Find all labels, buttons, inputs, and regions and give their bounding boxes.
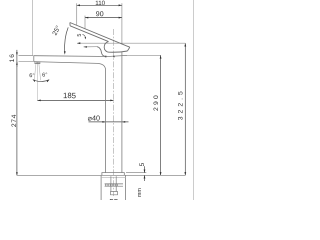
spout tip edge xyxy=(33,56,35,62)
dim 90 arrows xyxy=(85,17,122,19)
deck line xyxy=(17,174,185,176)
dim 185 arrows xyxy=(37,100,113,102)
base flange xyxy=(102,173,124,176)
dim 185 line xyxy=(37,99,113,101)
main centerline xyxy=(113,29,115,196)
svg-text:5: 5 xyxy=(77,34,83,37)
svg-text:⌀55: ⌀55 xyxy=(104,198,118,200)
svg-text:16: 16 xyxy=(9,53,16,62)
svg-text:5: 5 xyxy=(139,162,146,166)
svg-text:185: 185 xyxy=(63,91,77,100)
svg-text:mm: mm xyxy=(137,188,143,197)
lever tip cap xyxy=(69,23,71,26)
aerator xyxy=(35,62,40,64)
rod end cap xyxy=(111,192,118,195)
cropped extension line left xyxy=(32,0,34,56)
dim 16 arrows outside xyxy=(16,52,18,64)
dim 5 base arrows outside xyxy=(144,170,146,179)
dim 274 bottom arrow xyxy=(16,172,18,175)
svg-text:90: 90 xyxy=(96,11,104,18)
dim dia40 line xyxy=(89,121,129,123)
dim 110/90 extension right xyxy=(121,3,123,44)
angle 25 deg arc xyxy=(65,27,69,52)
column right edge xyxy=(121,52,123,173)
dim 110 line xyxy=(77,4,122,6)
dim 90 extension left xyxy=(84,16,86,29)
svg-text:322.5: 322.5 xyxy=(178,88,185,120)
beak tip edge xyxy=(127,47,129,51)
lever top and beak top edge xyxy=(70,23,130,48)
lever bottom edge xyxy=(70,26,108,42)
svg-text:6°: 6° xyxy=(29,73,34,79)
under-deck housing right wall xyxy=(124,175,126,200)
dim 110 arrows xyxy=(77,4,122,6)
cartridge housing profile xyxy=(104,42,109,53)
svg-text:110: 110 xyxy=(95,0,105,7)
dim 5 base extension tick xyxy=(126,172,146,174)
dim 110 extension left xyxy=(76,3,78,25)
dim 322.5 line xyxy=(184,43,186,175)
dim 5 lever leader xyxy=(82,34,85,38)
head underside xyxy=(109,51,127,52)
head left profile hook xyxy=(97,47,105,57)
svg-text:290: 290 xyxy=(153,93,160,111)
threaded rod xyxy=(111,176,116,191)
dim 16 line xyxy=(16,50,18,67)
deck bottom line xyxy=(101,176,125,178)
dim 322.5 top extension with arrow xyxy=(77,42,185,44)
junction dot left xyxy=(105,56,107,58)
dim 322.5 arrows xyxy=(184,43,186,175)
head top short line with arrow xyxy=(84,46,97,48)
spray angle arc xyxy=(33,80,49,82)
dim 5 lever leader arrow xyxy=(85,37,87,39)
spray arc arrows xyxy=(33,80,50,83)
svg-text:274: 274 xyxy=(11,114,18,127)
junction dot right xyxy=(113,56,115,58)
dim 16 extension lines xyxy=(19,56,34,62)
dim 290 arrows xyxy=(160,55,162,175)
cropped extension line right xyxy=(193,0,195,200)
svg-text:6°: 6° xyxy=(42,72,47,78)
svg-text:⌀40: ⌀40 xyxy=(88,113,100,122)
angle 25 deg arrow xyxy=(64,51,66,54)
mounting nut with hatching xyxy=(105,184,123,186)
spray cone left line xyxy=(34,64,36,80)
spout top edge xyxy=(34,55,127,56)
dim dia40 arrows outside xyxy=(102,121,125,123)
dim 290 line xyxy=(160,55,162,175)
spout bottom edge and column left edge xyxy=(34,62,106,173)
spray cone right line xyxy=(39,64,41,80)
dim 274 line xyxy=(16,62,18,176)
under-deck housing left wall xyxy=(100,175,102,200)
dim 5 base line xyxy=(144,166,146,181)
outlet centerline xyxy=(36,64,38,101)
dim 290 top extension xyxy=(127,54,161,56)
dim 90 line xyxy=(85,17,122,19)
